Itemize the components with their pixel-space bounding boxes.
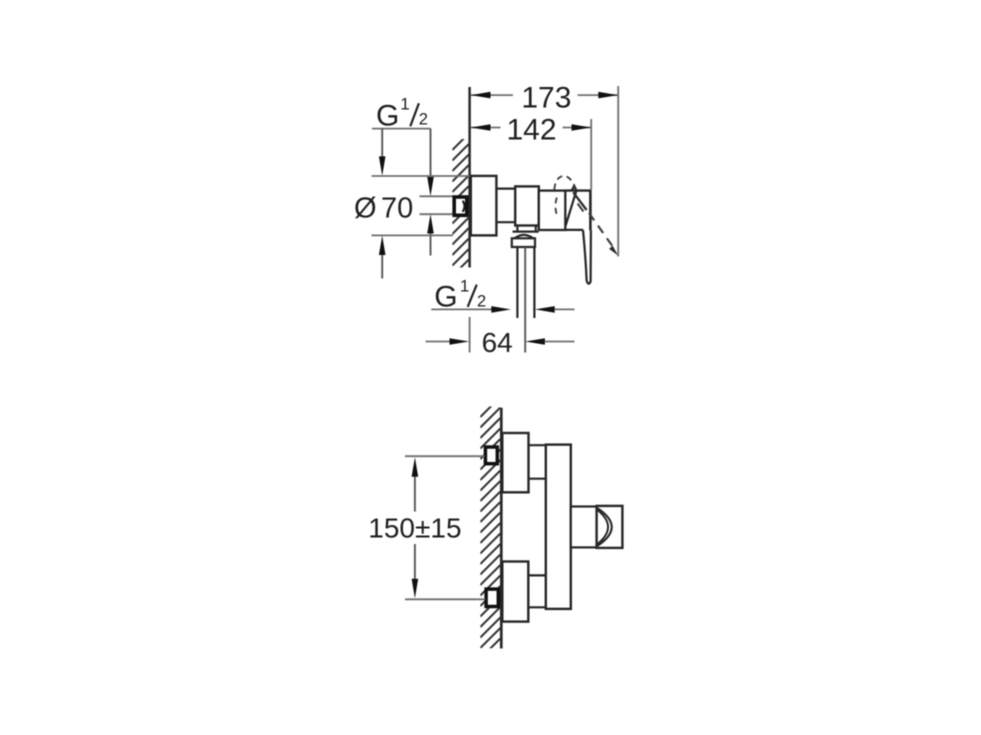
dimension 173: line <box>471 94 618 96</box>
svg-text:64: 64 <box>482 327 513 358</box>
cap dome arcs <box>598 508 612 546</box>
svg-text:2: 2 <box>419 111 428 129</box>
dimension 142: line <box>471 127 591 129</box>
upper inlet escutcheon block <box>502 433 528 492</box>
handle block bottom edge <box>565 229 583 231</box>
svg-text:G: G <box>434 280 457 313</box>
pipe centerline (64 extension) <box>524 247 526 353</box>
spout stub <box>571 507 597 548</box>
G1/2 right vertical dim line with arrows (x=430.5) <box>430 129 432 256</box>
lever open position: extra dash <box>578 204 584 212</box>
handle block right edge <box>589 191 592 231</box>
150+-15 extension line top <box>405 455 485 457</box>
connector leader line top <box>420 195 453 197</box>
lower neck lines <box>528 575 546 607</box>
svg-text:1: 1 <box>400 95 409 114</box>
handle block top edge <box>565 189 591 191</box>
outlet dome arc <box>515 235 534 239</box>
150+-15 vertical dimension line <box>414 476 416 581</box>
wall face extension segment for 64 dim <box>469 317 471 353</box>
svg-text:150±15: 150±15 <box>368 513 461 544</box>
wall face line (top view) <box>468 87 471 268</box>
svg-text:173: 173 <box>521 82 571 115</box>
down pipe outer lines <box>517 247 534 318</box>
bonnet section <box>539 191 566 230</box>
label G 1/2 (lower) <box>434 277 486 314</box>
lever pivot bump <box>572 187 577 191</box>
dimension 64: right arrow and line <box>525 338 545 345</box>
lever arm (solid, pointing down) <box>583 230 591 284</box>
escutcheon (wall flange) <box>471 176 497 236</box>
arrowhead at end of travel line <box>609 246 618 256</box>
svg-text:70: 70 <box>381 193 413 225</box>
svg-text:Ø: Ø <box>354 193 377 225</box>
wall face line (bottom view) <box>500 408 503 649</box>
upper neck lines <box>529 445 546 479</box>
lower wall connector square <box>486 589 498 606</box>
spout end cap <box>597 506 623 548</box>
svg-text:2: 2 <box>477 293 486 311</box>
extension line at handle travel tip (173) <box>617 86 619 257</box>
valve cartridge block <box>515 186 539 225</box>
label G 1/2 (top left) <box>376 95 428 133</box>
G1/2 left vertical dim line with arrows (x=382) <box>381 129 383 279</box>
lower G1/2 arrows <box>491 306 511 313</box>
wall hatching (bottom view) <box>480 397 500 669</box>
dashed hidden curve inside bonnet <box>555 198 557 216</box>
150+-15 extension line bottom <box>405 598 485 600</box>
extension line at handle rest tip (142) <box>590 119 592 190</box>
dimension 173: arrows <box>471 92 491 99</box>
G1/2 label underline <box>372 128 431 130</box>
connector inner arc <box>463 201 465 212</box>
dashed handle outline (open position, above) <box>554 176 576 190</box>
lower G1/2 leader line <box>431 308 492 310</box>
lever open position: solid pivot segment <box>573 192 586 210</box>
neck between escutcheon and valve block <box>496 189 515 223</box>
150+-15 arrows <box>412 457 419 477</box>
dimension 142: arrows <box>471 124 491 131</box>
svg-text:G: G <box>376 99 399 132</box>
dimension 64: left line and arrow <box>426 341 451 343</box>
outlet nut <box>512 238 535 247</box>
O70 extension line top <box>372 175 470 177</box>
G1/2 wall connector (square fitting) <box>454 197 467 215</box>
connector leader line bottom <box>420 213 453 215</box>
outlet stub below block <box>513 226 539 232</box>
wall hatching (top view) <box>452 134 468 287</box>
O70 extension line bottom <box>372 234 453 236</box>
svg-text:142: 142 <box>506 114 556 147</box>
main body (front view) <box>546 445 571 609</box>
upper wall connector square <box>485 447 497 464</box>
lever open position: dashed travel line <box>589 213 615 250</box>
lower inlet escutcheon block <box>502 562 528 622</box>
lever front diagonal (solid) <box>566 191 577 226</box>
svg-text:1: 1 <box>460 277 469 296</box>
